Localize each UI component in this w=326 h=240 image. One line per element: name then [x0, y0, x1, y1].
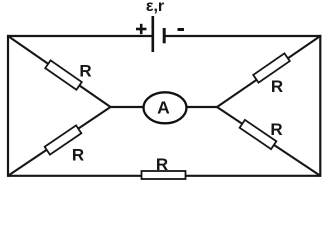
label - (battery negative terminal) — [178, 28, 185, 31]
wire: top border right segment (battery negative lead) — [164, 35, 321, 37]
wire: ammeter to right junction — [180, 106, 217, 108]
svg-text:A: A — [157, 98, 170, 118]
wire: top-right diagonal — [217, 36, 320, 107]
wire: left junction to ammeter — [111, 106, 151, 108]
wire: bottom-right diagonal — [217, 107, 320, 176]
svg-text:ε,r: ε,r — [146, 0, 164, 15]
svg-text:R: R — [271, 77, 283, 96]
wire: bottom-left diagonal — [8, 107, 111, 176]
svg-text:R: R — [79, 61, 91, 80]
svg-text:R: R — [156, 155, 168, 174]
wire: left border — [7, 35, 9, 177]
resistor R (bottom branch) — [142, 171, 186, 179]
node: right junction — [216, 106, 218, 108]
battery cell negative plate — [163, 28, 166, 43]
resistor R (top-right branch) — [253, 53, 290, 82]
resistor R (bottom-left branch) — [45, 125, 82, 154]
wire: right border — [319, 35, 321, 177]
node: left junction — [110, 106, 112, 108]
battery cell (EMF source, internal resistance r) positive plate — [152, 16, 155, 52]
label + (battery positive terminal) — [136, 24, 147, 34]
resistor R (top-left branch) — [45, 60, 82, 89]
ammeter A (U1) — [144, 92, 187, 123]
svg-text:R: R — [270, 120, 282, 139]
wire: top-left diagonal — [8, 36, 111, 107]
resistor R (bottom-right branch) — [240, 120, 277, 149]
wire: bottom border — [8, 175, 320, 177]
wire: top border left segment (battery positive lead) — [7, 35, 153, 37]
svg-text:R: R — [72, 146, 84, 165]
